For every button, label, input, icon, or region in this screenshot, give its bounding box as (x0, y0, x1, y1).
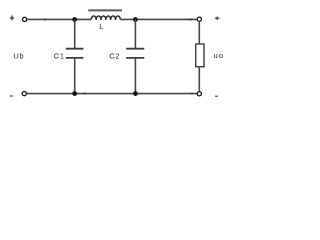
svg-text:C2: C2 (109, 52, 120, 61)
inductor L coil (91, 16, 120, 19)
terminal output+ (197, 17, 201, 21)
node B junction top of C2 (133, 17, 138, 22)
capacitor C1 plates (66, 48, 84, 50)
capacitor C1 bottom lead wire (74, 58, 76, 94)
current arrow mark on top rail right (189, 18, 193, 20)
inductor L core bar (88, 9, 122, 11)
svg-text:Ub: Ub (13, 52, 24, 61)
svg-text:uo: uo (214, 51, 225, 60)
current arrow mark on bottom rail right (191, 93, 193, 95)
capacitor C2 top lead wire (134, 20, 136, 49)
svg-text:L: L (99, 22, 103, 31)
wire top rail right (120, 18, 197, 20)
capacitor C1 top lead wire (74, 20, 76, 49)
wire bottom rail (27, 93, 197, 95)
label - (output negative) (215, 95, 218, 97)
current arrow mark on bottom rail left (83, 93, 86, 95)
capacitor C2 bottom lead wire (134, 58, 136, 94)
resistor top lead wire (198, 21, 200, 44)
junction bottom of C2 (133, 91, 138, 96)
terminal output- (197, 92, 201, 96)
label - (input negative) (10, 95, 13, 97)
capacitor C2 plates (126, 48, 144, 50)
terminal input- (22, 92, 26, 96)
terminal input+ (23, 17, 27, 21)
wire top rail left (27, 18, 91, 20)
resistor bottom lead wire (198, 67, 200, 92)
svg-text:C1: C1 (54, 52, 65, 61)
current arrow mark on top rail left (43, 18, 46, 20)
label + (output positive) (215, 17, 220, 20)
node A junction top of C1 (72, 17, 77, 22)
resistor R load (196, 44, 204, 67)
junction bottom of C1 (72, 91, 77, 96)
inductor coil knots (95, 19, 116, 21)
label + (input positive) (10, 15, 14, 20)
